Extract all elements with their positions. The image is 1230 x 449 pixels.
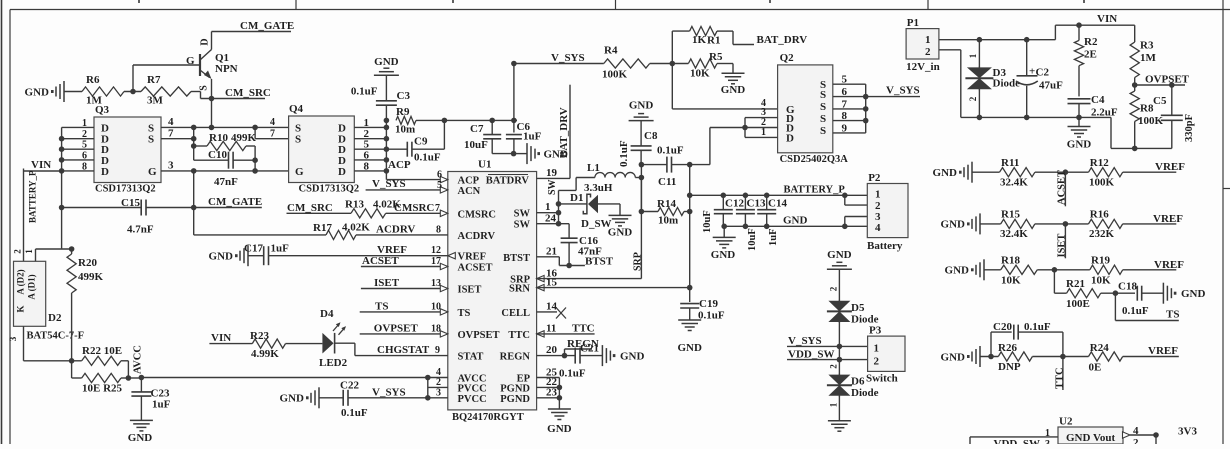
svg-text:L1: L1 <box>587 162 600 174</box>
svg-text:GND: GND <box>783 215 808 227</box>
mosfet Q2 CSD25402Q3A <box>778 52 849 165</box>
svg-text:11: 11 <box>546 323 556 335</box>
svg-text:S: S <box>148 134 154 146</box>
svg-text:BQ24170RGYT: BQ24170RGYT <box>452 412 524 423</box>
svg-text:CM_GATE: CM_GATE <box>240 20 294 32</box>
svg-text:S: S <box>820 113 826 125</box>
wire ISET pin 13 <box>361 277 448 292</box>
svg-text:10E R25: 10E R25 <box>82 383 123 395</box>
svg-text:GND: GND <box>547 423 572 435</box>
svg-text:R8: R8 <box>1140 103 1154 115</box>
svg-text:0.1uF: 0.1uF <box>1024 321 1051 333</box>
svg-text:4.7nF: 4.7nF <box>127 224 154 236</box>
svg-text:2: 2 <box>829 364 839 369</box>
svg-text:D1: D1 <box>570 192 583 204</box>
svg-text:SRP: SRP <box>633 252 644 271</box>
ground above C3 <box>374 56 399 101</box>
svg-text:2.2uF: 2.2uF <box>1091 107 1118 119</box>
capacitor C6 1uF <box>506 121 542 156</box>
svg-text:Switch: Switch <box>866 373 898 385</box>
svg-text:D: D <box>101 122 109 134</box>
net label TS stub <box>1115 293 1179 320</box>
svg-text:PVCC: PVCC <box>458 383 487 394</box>
svg-text:R22 10E: R22 10E <box>82 345 122 357</box>
ground (sideways) row TS <box>945 259 984 280</box>
svg-text:1uF: 1uF <box>152 399 171 411</box>
svg-text:18: 18 <box>431 323 441 334</box>
resistor R23 4.99K <box>250 330 322 360</box>
node V_SYS top <box>511 52 604 133</box>
ground below U1 <box>547 409 572 435</box>
svg-text:2: 2 <box>13 249 23 254</box>
svg-text:BATTERY_P: BATTERY_P <box>28 170 38 223</box>
svg-text:R11: R11 <box>1001 157 1019 169</box>
svg-text:10K: 10K <box>690 68 710 80</box>
svg-text:1uF: 1uF <box>271 243 290 255</box>
svg-text:10uF: 10uF <box>747 228 758 251</box>
svg-text:1: 1 <box>545 201 551 213</box>
svg-text:CM_SRC: CM_SRC <box>287 202 333 214</box>
resistor R3 1M <box>1130 25 1156 85</box>
svg-text:0.1uF: 0.1uF <box>618 140 630 167</box>
ground (sideways) at C17 <box>209 245 248 266</box>
svg-text:7: 7 <box>168 128 174 140</box>
svg-text:SW: SW <box>514 209 531 220</box>
node AVCC <box>128 345 144 380</box>
svg-text:R14: R14 <box>657 198 676 210</box>
svg-text:S: S <box>820 89 826 101</box>
wire Q2 drains to node <box>709 128 711 165</box>
svg-text:TS: TS <box>458 308 471 319</box>
svg-text:7: 7 <box>842 98 848 110</box>
svg-text:12V_in: 12V_in <box>906 61 940 73</box>
wire D2 pin1 to R20 <box>36 246 75 261</box>
svg-text:0.1uF: 0.1uF <box>657 145 684 157</box>
svg-text:1: 1 <box>925 34 931 46</box>
svg-text:3: 3 <box>436 388 441 399</box>
svg-text:C15: C15 <box>121 197 140 209</box>
svg-text:1uF: 1uF <box>523 131 542 143</box>
capacitor C12 10uF <box>702 195 744 233</box>
svg-text:P3: P3 <box>869 325 882 337</box>
svg-text:3: 3 <box>8 336 18 341</box>
svg-text:0.1uF: 0.1uF <box>559 368 586 380</box>
svg-text:GND: GND <box>374 56 399 68</box>
svg-text:C20: C20 <box>993 321 1012 333</box>
IC U1 BQ24170RGYT <box>448 159 537 424</box>
svg-text:VDD_SW: VDD_SW <box>788 348 834 360</box>
svg-text:499K: 499K <box>231 132 257 144</box>
svg-text:32.4K: 32.4K <box>1000 228 1028 240</box>
svg-text:BATDRV: BATDRV <box>486 176 530 187</box>
svg-text:10K: 10K <box>1091 275 1111 287</box>
wire P1 pin2 / gnd rail <box>939 50 1172 151</box>
ground (sideways) at R6 <box>25 81 64 102</box>
svg-text:CSD17313Q2: CSD17313Q2 <box>299 184 360 195</box>
svg-text:R19: R19 <box>1091 255 1110 267</box>
capacitor C23 1uF <box>131 378 170 420</box>
svg-text:1M: 1M <box>1140 52 1157 64</box>
svg-text:A (D1): A (D1) <box>27 274 37 299</box>
svg-text:3V3: 3V3 <box>1178 426 1197 438</box>
wire battery sense vertical <box>687 165 693 302</box>
ground (sideways) row ISET <box>941 213 980 234</box>
wire ACSET pin 17 <box>361 255 448 270</box>
svg-text:C4: C4 <box>1091 94 1105 106</box>
svg-text:GND: GND <box>128 432 153 444</box>
svg-text:VREF: VREF <box>1155 161 1185 173</box>
svg-text:CMSRC: CMSRC <box>394 202 434 214</box>
svg-text:OVPSET: OVPSET <box>374 322 419 334</box>
svg-text:GND: GND <box>827 249 852 261</box>
svg-text:2: 2 <box>82 129 87 140</box>
svg-text:OVPSET: OVPSET <box>458 330 500 341</box>
svg-text:R7: R7 <box>147 74 161 86</box>
svg-text:R18: R18 <box>1001 255 1020 267</box>
svg-text:1: 1 <box>761 127 766 138</box>
resistor R26 DNP <box>998 342 1089 373</box>
svg-text:R12: R12 <box>1090 157 1109 169</box>
node SW / wires pins 1,24 <box>537 178 577 227</box>
ground below C12 <box>711 224 736 262</box>
svg-text:2: 2 <box>829 286 839 291</box>
svg-text:9: 9 <box>435 345 440 356</box>
net label CM_GATE top <box>212 20 295 32</box>
svg-text:GND: GND <box>721 84 746 96</box>
diode D3 bidirectional <box>965 40 1020 118</box>
svg-text:VREF: VREF <box>1148 345 1178 357</box>
mosfet Q3 CSD17313Q2 <box>94 104 161 195</box>
svg-text:VDD_SW: VDD_SW <box>994 438 1040 444</box>
svg-text:TTC: TTC <box>1054 367 1065 389</box>
svg-text:0.1uF: 0.1uF <box>341 407 368 419</box>
wire BATTERY_P vertical <box>24 169 38 262</box>
svg-text:OVPSET: OVPSET <box>1145 74 1190 86</box>
svg-text:2: 2 <box>874 356 880 368</box>
svg-text:C7: C7 <box>470 123 484 135</box>
svg-text:R24: R24 <box>1090 342 1109 354</box>
wire VREF pin 12 <box>377 244 455 259</box>
svg-text:10: 10 <box>431 301 441 312</box>
svg-text:7: 7 <box>435 203 440 214</box>
net label V_SYS switch row <box>787 335 868 349</box>
svg-text:R10: R10 <box>209 132 228 144</box>
wire node R6/R7 <box>124 65 200 94</box>
svg-text:K: K <box>16 305 26 312</box>
resistor R1 1K <box>690 27 754 47</box>
IC U2 regulator <box>1058 416 1123 445</box>
svg-text:D: D <box>338 122 346 134</box>
svg-text:1K: 1K <box>692 34 707 46</box>
wire U2 pin 4 3V3 <box>1123 425 1198 449</box>
svg-text:GND: GND <box>945 265 970 277</box>
svg-text:CHGSTAT: CHGSTAT <box>377 344 430 356</box>
wire TS pin 10 <box>360 300 448 315</box>
svg-text:D5: D5 <box>851 302 865 314</box>
net label VIN left <box>23 159 62 171</box>
svg-text:ACN: ACN <box>458 186 481 197</box>
capacitor C13 10uF <box>736 195 766 251</box>
node R9 right / C9 <box>442 118 517 124</box>
diode D1 D_SW <box>559 192 621 230</box>
diode D5 <box>827 286 879 346</box>
svg-text:12: 12 <box>431 245 441 256</box>
svg-text:V_SYS: V_SYS <box>372 178 406 190</box>
svg-text:BTST: BTST <box>503 253 530 264</box>
capacitor C22 0.1uF <box>280 380 428 420</box>
ground below D1 <box>608 215 633 238</box>
svg-text:1: 1 <box>968 53 978 58</box>
svg-text:4: 4 <box>875 222 881 234</box>
Q3 left pin wires 1,2,5,6,8 <box>59 118 94 249</box>
svg-text:5: 5 <box>437 180 442 191</box>
svg-text:Diode: Diode <box>993 78 1021 90</box>
svg-text:10m: 10m <box>658 215 678 227</box>
net label VIN at R23 <box>209 332 252 344</box>
svg-text:C9: C9 <box>414 136 428 148</box>
svg-text:C17: C17 <box>244 243 263 255</box>
wire R6 left <box>64 91 82 93</box>
svg-text:47uF: 47uF <box>1039 80 1063 92</box>
capacitor C7 10uF <box>464 120 514 153</box>
svg-text:C2: C2 <box>1036 67 1050 79</box>
svg-text:19: 19 <box>546 167 558 179</box>
svg-text:CMSRC: CMSRC <box>458 209 497 220</box>
svg-text:C22: C22 <box>340 380 359 392</box>
svg-text:GND: GND <box>25 87 50 99</box>
svg-text:0.1uF: 0.1uF <box>1122 305 1149 317</box>
svg-text:C8: C8 <box>644 130 658 142</box>
diode D2 BAT54C-7-F <box>13 249 85 342</box>
svg-text:GND: GND <box>620 350 645 362</box>
svg-text:U2: U2 <box>1059 416 1073 428</box>
resistor R20 499K <box>67 249 104 361</box>
node ISET stub <box>1057 221 1069 258</box>
svg-text:10uF: 10uF <box>702 210 713 233</box>
svg-text:C21: C21 <box>580 343 599 355</box>
svg-text:BTST: BTST <box>585 256 614 268</box>
capacitor C3 0.1uF <box>351 86 411 106</box>
wire EP/PGND pins 25,22,23 to ground <box>537 366 563 409</box>
svg-text:4: 4 <box>270 117 275 128</box>
wire CHGSTAT pin 9 <box>377 344 440 356</box>
net label CM_GATE stub <box>191 196 262 210</box>
svg-text:Diode: Diode <box>851 387 879 399</box>
capacitor C19 0.1uF <box>680 298 725 322</box>
capacitor C15 4.7nF <box>62 197 194 236</box>
node L1 output / sense <box>639 162 645 215</box>
capacitor C2 47uF polarized <box>1016 40 1063 118</box>
svg-text:V_SYS: V_SYS <box>886 85 920 97</box>
wire Q4 source vertical <box>255 117 289 140</box>
svg-text:20: 20 <box>546 344 558 356</box>
connector P2 Battery <box>867 172 908 252</box>
wire SRP pin 16 <box>537 176 644 282</box>
net label VDD_SW row <box>787 346 868 362</box>
ground below C4 <box>1067 117 1092 150</box>
net label VIN top right <box>1097 13 1117 25</box>
svg-text:+: + <box>1029 66 1035 78</box>
svg-text:Vout: Vout <box>1093 432 1116 444</box>
svg-text:Battery: Battery <box>867 240 903 252</box>
Q3 right pins 4,7,3 <box>161 116 289 172</box>
svg-text:R6: R6 <box>86 74 100 86</box>
svg-text:4: 4 <box>168 116 174 128</box>
svg-text:ACSET: ACSET <box>362 255 399 267</box>
svg-text:R16: R16 <box>1090 209 1109 221</box>
svg-text:G: G <box>148 166 157 178</box>
svg-text:S: S <box>295 122 301 134</box>
connector P3 Switch <box>866 325 905 385</box>
svg-text:R9: R9 <box>396 106 410 118</box>
capacitor C4 2.2uF <box>1068 94 1118 119</box>
svg-text:ACDRV: ACDRV <box>458 231 496 242</box>
resistor R9 10m <box>395 106 444 136</box>
svg-text:8: 8 <box>842 110 848 122</box>
svg-text:NPN: NPN <box>215 63 238 75</box>
svg-text:R3: R3 <box>1140 40 1154 52</box>
svg-text:GND: GND <box>1181 288 1206 300</box>
svg-text:0E: 0E <box>1089 362 1102 374</box>
svg-text:1: 1 <box>24 249 34 254</box>
svg-text:TTC: TTC <box>572 323 595 335</box>
svg-text:1: 1 <box>874 343 880 355</box>
svg-text:C19: C19 <box>699 298 718 310</box>
svg-text:TS: TS <box>375 300 388 312</box>
wire to Q2 gate <box>672 98 777 109</box>
svg-text:D6: D6 <box>851 376 865 388</box>
connector P1 12V_in <box>906 17 940 73</box>
svg-text:CSD25402Q3A: CSD25402Q3A <box>780 154 849 165</box>
LED D4 LED2 <box>319 308 448 369</box>
svg-text:D: D <box>338 166 346 178</box>
svg-text:REGN: REGN <box>500 352 531 363</box>
net label ACP <box>388 159 411 171</box>
ground (sideways) right of C6 <box>514 143 568 164</box>
svg-text:100K: 100K <box>1089 177 1115 189</box>
capacitor C20 0.1uF <box>993 321 1063 357</box>
svg-text:G: G <box>295 166 304 178</box>
resistor R5 10K <box>672 51 733 80</box>
resistor R11 32.4K <box>972 157 1089 189</box>
svg-text:AVCC: AVCC <box>133 345 144 374</box>
svg-text:GND: GND <box>941 219 966 231</box>
resistor R14 10m <box>641 198 692 227</box>
svg-text:4: 4 <box>1133 425 1139 437</box>
svg-text:R1: R1 <box>707 35 720 47</box>
svg-text:3M: 3M <box>147 95 164 107</box>
resistor R8 100K <box>1130 85 1163 148</box>
svg-text:CELL: CELL <box>501 308 530 319</box>
svg-text:17: 17 <box>431 256 441 267</box>
svg-text:R13: R13 <box>345 199 364 211</box>
svg-text:7: 7 <box>270 129 275 140</box>
ground above D5 <box>827 249 852 301</box>
svg-text:1: 1 <box>875 189 881 201</box>
svg-text:SRN: SRN <box>509 284 530 295</box>
diode D6 <box>827 360 879 421</box>
node CM_GATE on gate line <box>191 168 197 235</box>
Q2 drain wires 3,2,1 <box>710 107 778 138</box>
svg-text:V_SYS: V_SYS <box>788 335 822 347</box>
resistor R6 1M <box>82 74 124 107</box>
svg-text:10K: 10K <box>1001 275 1021 287</box>
svg-text:VIN: VIN <box>211 332 231 344</box>
svg-text:C11: C11 <box>658 176 676 188</box>
svg-text:A (D2): A (D2) <box>16 269 26 294</box>
resistor R12 100K <box>1089 157 1186 189</box>
resistor R15 32.4K <box>980 209 1089 241</box>
svg-text:330pF: 330pF <box>1184 114 1195 142</box>
svg-text:C14: C14 <box>768 198 787 210</box>
svg-text:VREF: VREF <box>458 252 487 263</box>
node S vertical (Q3 sources) <box>191 125 289 161</box>
wire BATTERY_P row <box>690 185 868 206</box>
ground (sideways) row TTC <box>941 346 980 367</box>
svg-text:GND: GND <box>711 249 736 261</box>
svg-text:GND: GND <box>941 351 966 363</box>
svg-text:CSD17313Q2: CSD17313Q2 <box>95 184 156 195</box>
wire R10/C10 to gate line <box>252 146 258 174</box>
svg-text:BAT54C-7-F: BAT54C-7-F <box>27 331 85 342</box>
svg-text:S: S <box>820 101 826 113</box>
svg-text:P2: P2 <box>868 172 881 184</box>
svg-text:C5: C5 <box>1153 95 1167 107</box>
svg-text:VIN: VIN <box>1097 13 1117 25</box>
wire TTC pin 11 <box>537 323 595 338</box>
svg-text:R4: R4 <box>604 45 618 57</box>
svg-text:6: 6 <box>842 86 848 98</box>
svg-text:ISET: ISET <box>458 285 482 296</box>
wire PVCC pins 2,3 <box>425 377 448 401</box>
net label OVPSET right <box>1132 74 1190 88</box>
capacitor C14 1uF <box>757 195 787 246</box>
svg-text:232K: 232K <box>1089 228 1115 240</box>
svg-text:GND: GND <box>933 167 958 179</box>
svg-text:ACP: ACP <box>388 159 411 171</box>
svg-text:R21: R21 <box>1066 278 1085 290</box>
wire ACP pin 6 <box>437 170 448 183</box>
svg-text:499K: 499K <box>78 271 104 283</box>
svg-text:D2: D2 <box>48 312 62 324</box>
resistor R25 10E <box>72 361 132 395</box>
svg-text:0.1uF: 0.1uF <box>351 86 378 98</box>
svg-text:5: 5 <box>82 140 87 151</box>
wire BATDRV pin 19 <box>537 85 570 179</box>
resistor R24 0E <box>1089 342 1179 374</box>
svg-text:4.99K: 4.99K <box>251 348 279 360</box>
svg-text:8: 8 <box>364 160 370 172</box>
svg-text:2: 2 <box>925 46 931 58</box>
wire P1 pin1 rail <box>939 22 1135 42</box>
resistor R10 499K <box>194 132 257 151</box>
svg-text:C10: C10 <box>208 149 227 161</box>
inductor L1 3.3uH <box>576 162 641 194</box>
svg-text:V_SYS: V_SYS <box>372 387 406 399</box>
svg-text:PGND: PGND <box>500 394 530 405</box>
svg-text:STAT: STAT <box>458 352 484 363</box>
svg-text:1uF: 1uF <box>768 228 779 246</box>
svg-text:15: 15 <box>546 277 558 289</box>
svg-text:C13: C13 <box>747 198 766 210</box>
svg-text:2: 2 <box>436 377 441 388</box>
svg-text:2: 2 <box>968 96 978 101</box>
svg-text:G: G <box>186 55 195 67</box>
svg-text:ACSET: ACSET <box>1057 170 1068 205</box>
svg-text:8: 8 <box>82 161 87 172</box>
svg-text:CM_GATE: CM_GATE <box>208 196 262 208</box>
svg-text:SW: SW <box>514 220 531 231</box>
